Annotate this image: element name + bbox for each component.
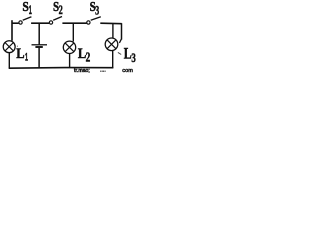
svg-text:L: L	[16, 45, 24, 61]
svg-text:2: 2	[59, 5, 63, 18]
lamp L3	[105, 38, 118, 51]
lamp L2	[63, 41, 75, 53]
svg-text:3: 3	[131, 51, 136, 65]
svg-text:com: com	[122, 68, 133, 73]
switch S3 pivot circle	[87, 21, 90, 24]
svg-text:tr.mao;: tr.mao;	[74, 68, 90, 73]
svg-text:1: 1	[29, 4, 32, 17]
svg-text:1: 1	[25, 50, 28, 63]
switch S3 lever (open)	[91, 17, 101, 21]
wire battery stem from top wire	[38, 24, 40, 45]
wire right vertical from top-right corner going down	[121, 23, 123, 39]
lamp L1	[3, 41, 15, 53]
switch S1 pivot circle	[19, 21, 22, 24]
svg-text:3: 3	[95, 4, 99, 18]
wire bottom horizontal	[9, 67, 114, 70]
wire top segment from node A to switch S1	[12, 22, 19, 24]
wire right vertical drooping end	[119, 39, 121, 43]
svg-text:L: L	[124, 46, 132, 63]
wire left vertical from top wire down to lamp L1	[11, 20, 13, 41]
wire from top wire down to lamp L2	[72, 24, 74, 42]
label L1	[16, 45, 24, 61]
wire battery stem to bottom wire	[38, 48, 40, 68]
wire from top wire down to lamp L3	[112, 24, 114, 39]
label L3	[124, 46, 132, 63]
battery cell: long positive plate	[32, 44, 48, 46]
switch S2 pivot circle	[49, 21, 52, 24]
wire top segment from S3 to top-right corner	[100, 22, 121, 25]
wire top segment from S2 to switch S3	[62, 22, 86, 24]
switch S2 lever (open)	[53, 17, 62, 21]
wire from lamp L2 down to bottom wire	[69, 53, 71, 68]
switch S1 lever (open)	[23, 17, 32, 21]
svg-text:S: S	[22, 0, 28, 14]
wire top segment from S1 to switch S2	[31, 22, 49, 24]
ink speck right of lamp L1	[17, 46, 18, 47]
svg-text:2: 2	[86, 51, 91, 65]
wire from lamp L1 down to bottom wire	[8, 53, 10, 69]
wire from lamp L3 down to bottom wire	[112, 50, 114, 68]
ink speck near L3 lower right	[118, 52, 121, 54]
label S3	[90, 0, 96, 14]
battery cell: short negative plate	[35, 46, 42, 48]
label L2	[78, 45, 86, 61]
label S1	[22, 0, 28, 14]
svg-text:....: ....	[100, 68, 106, 74]
label S2	[53, 0, 59, 14]
